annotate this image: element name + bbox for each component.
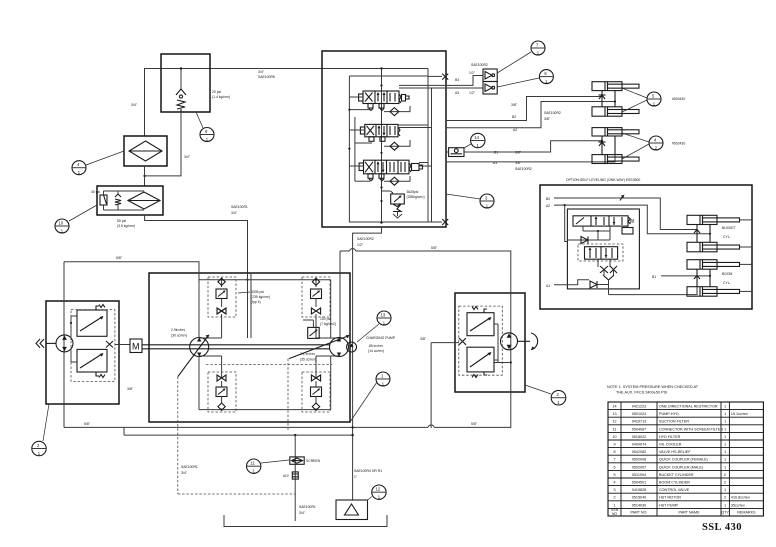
wire: detail to boom cyl <box>609 287 698 295</box>
svg-text:11: 11 <box>250 461 255 466</box>
wire: pump shaft double line <box>142 345 330 349</box>
balloon 2 (right hst motor) <box>525 385 566 405</box>
svg-text:SCREEN: SCREEN <box>306 459 321 463</box>
svg-text:1: 1 <box>724 503 726 507</box>
balloon 1 (hst pump) <box>350 372 390 422</box>
svg-text:OPTION:SELF LEVELING (ONE-WAY): OPTION:SELF LEVELING (ONE-WAY) ESS3500 <box>566 178 640 182</box>
svg-text:HST PUMP: HST PUMP <box>659 503 679 507</box>
label SAE100R1 3/4" <box>231 205 248 215</box>
right HST motor box (item 2) <box>455 293 525 392</box>
svg-text:1: 1 <box>724 465 726 469</box>
self leveling outer box <box>540 185 752 309</box>
svg-text:40 psi: 40 psi <box>91 190 100 194</box>
X mark bottom right of valve <box>428 219 448 225</box>
check valve below spool 1 <box>384 106 410 116</box>
drawing title SSL 430 <box>702 522 742 533</box>
svg-text:1: 1 <box>613 503 615 507</box>
wire: detail boom manifold <box>694 269 733 287</box>
svg-text:CYL.: CYL. <box>723 281 731 285</box>
check valve left in detail <box>567 237 610 244</box>
svg-text:PART NAME: PART NAME <box>678 511 700 515</box>
left HST motor box (item 2) <box>46 301 119 404</box>
wire: motor to M box <box>115 344 130 346</box>
detail bucket cylinder top <box>687 215 752 224</box>
svg-text:#502430: #502430 <box>672 142 685 146</box>
check valve 20 psi inside cooler <box>176 67 186 112</box>
svg-text:SAE100R4 OR R1: SAE100R4 OR R1 <box>354 469 382 473</box>
svg-text:CYL.: CYL. <box>723 235 731 239</box>
balloon 12 (reservoir) <box>368 485 387 500</box>
svg-text:12: 12 <box>612 420 616 424</box>
svg-text:15.1cc/rev: 15.1cc/rev <box>731 412 748 416</box>
wire: pilot line to right motor <box>420 337 459 428</box>
balloon 4 qty2 (boom cylinders) <box>622 133 685 159</box>
spool valve 1 (aux section) <box>359 91 409 111</box>
wire: A2 line in detail <box>546 204 710 234</box>
svg-text:0542082: 0542082 <box>632 450 646 454</box>
M engine box <box>130 339 142 353</box>
label 3335 psi <box>238 290 270 304</box>
wire: return line 3/4" to oil cooler <box>145 69 323 137</box>
svg-text:9: 9 <box>613 442 615 446</box>
labels B2 A2 <box>511 103 561 132</box>
svg-text:5: 5 <box>613 473 615 477</box>
svg-text:SAE100R2: SAE100R2 <box>357 237 374 241</box>
boom cylinder top (item 4) <box>592 128 639 136</box>
svg-text:0501024: 0501024 <box>632 412 646 416</box>
svg-text:0514030: 0514030 <box>632 503 646 507</box>
svg-text:SAE100R2: SAE100R2 <box>544 111 561 115</box>
one directional restrictor (item 14) <box>449 148 464 157</box>
svg-text:0511904: 0511904 <box>632 473 646 477</box>
svg-text:(14 cc/rev): (14 cc/rev) <box>368 349 384 353</box>
left motor shift valve lower <box>71 348 107 378</box>
wire: valve tank outlet SAE100R2 1/2" <box>353 227 382 500</box>
svg-text:50 psi: 50 psi <box>117 219 126 223</box>
svg-text:10: 10 <box>59 221 64 226</box>
wire: 5/8" line left to pump <box>64 256 199 273</box>
dashed pilot box left motor <box>71 310 115 382</box>
quick coupler male (item 6) <box>483 82 497 95</box>
throttle arrows pair <box>598 259 617 275</box>
wire: cooler to filter <box>144 166 146 186</box>
svg-text:HYD FILTER: HYD FILTER <box>659 435 681 439</box>
svg-text:A2: A2 <box>513 128 517 132</box>
wire: B1 line valve to boom cylinders <box>446 141 602 152</box>
svg-text:14: 14 <box>474 135 479 140</box>
wire: A3 line to quick coupler <box>399 87 483 89</box>
svg-text:2.1 in³/rev: 2.1 in³/rev <box>300 352 315 356</box>
svg-text:6: 6 <box>613 465 615 469</box>
balloon 2 (left hst motor) <box>32 404 49 456</box>
svg-text:1: 1 <box>724 404 726 408</box>
relief cluster bottom-left <box>199 356 236 412</box>
detail boom cylinder bottom <box>687 287 752 297</box>
svg-text:3: 3 <box>613 488 615 492</box>
svg-text:NO: NO <box>612 512 617 516</box>
wire: charge suction line inside box <box>248 273 252 338</box>
svg-text:5/8": 5/8" <box>471 422 478 426</box>
svg-text:1: 1 <box>724 488 726 492</box>
svg-text:3/4": 3/4" <box>231 211 238 215</box>
right motor shift valve upper <box>467 307 511 363</box>
svg-text:HST MOTOR: HST MOTOR <box>659 496 681 500</box>
balloon 10 (hyd filter) <box>55 205 97 234</box>
hst pump right variable <box>289 335 350 362</box>
bottom bracket <box>224 515 387 527</box>
svg-text:BOOM CYLINDER: BOOM CYLINDER <box>659 480 690 484</box>
reservoir tank (item 12) <box>336 500 368 520</box>
svg-text:1: 1 <box>724 427 726 431</box>
svg-text:1: 1 <box>724 450 726 454</box>
svg-text:CHARGING PUMP: CHARGING PUMP <box>366 336 396 340</box>
svg-text:3/4": 3/4" <box>184 155 191 159</box>
svg-text:QUICK COUPLER (FEMALE): QUICK COUPLER (FEMALE) <box>659 458 708 462</box>
balloon 7 (coupler female) <box>497 41 545 73</box>
wire: A1 line valve to boom cylinders <box>446 155 615 162</box>
svg-text:0504501: 0504501 <box>632 480 646 484</box>
svg-text:(235 kg/cm²): (235 kg/cm²) <box>251 295 270 299</box>
hyd filter box (item 10) with bypass <box>91 186 163 215</box>
svg-text:SSL 430: SSL 430 <box>702 522 742 533</box>
svg-text:3/8": 3/8" <box>515 161 522 165</box>
wire: HST bottom gallery <box>199 356 331 411</box>
svg-text:(1.4 kg/cm²): (1.4 kg/cm²) <box>212 95 230 99</box>
svg-text:0502057: 0502057 <box>632 465 646 469</box>
balloon 3 (control valve) <box>446 194 494 209</box>
wire: B1 line in detail <box>652 275 710 279</box>
svg-text:410.8cc/rev: 410.8cc/rev <box>731 496 750 500</box>
balloon 5 (bucket cylinders) <box>622 88 685 112</box>
svg-text:2: 2 <box>613 496 615 500</box>
wire: detail bucket manifold <box>694 225 736 243</box>
boom cylinder bottom (item 4) <box>592 155 639 164</box>
svg-text:0400074: 0400074 <box>632 442 646 446</box>
svg-text:(30 cc/rev): (30 cc/rev) <box>171 334 187 338</box>
svg-text:2: 2 <box>724 496 726 500</box>
svg-text:3625psi: 3625psi <box>407 190 419 194</box>
svg-text:THE AUX. FFCS 2400±50 PSI: THE AUX. FFCS 2400±50 PSI <box>616 391 667 395</box>
svg-text:PART NO.: PART NO. <box>630 511 647 515</box>
self leveling spool valve <box>573 216 635 234</box>
label 3/8" near M <box>127 387 134 391</box>
X mark top right of valve <box>428 74 448 80</box>
svg-text:A3: A3 <box>455 91 459 95</box>
svg-text:3/8": 3/8" <box>544 117 551 121</box>
svg-text:(255kg/cm²): (255kg/cm²) <box>407 195 425 199</box>
svg-text:3/4": 3/4" <box>299 511 306 515</box>
parts table <box>608 402 763 516</box>
wire: inlet line inside valve block <box>322 67 428 76</box>
label tank hose <box>354 469 382 479</box>
right motor symbol <box>501 333 538 350</box>
svg-text:CONNECTOR WITH SCREEN FILTER: CONNECTOR WITH SCREEN FILTER <box>659 427 723 431</box>
right motor shift valve lower <box>467 347 498 377</box>
svg-text:#10: #10 <box>283 474 289 478</box>
svg-text:3/8": 3/8" <box>511 103 518 107</box>
svg-text:5/8": 5/8" <box>84 422 91 426</box>
wire: boom cyl manifold verticals <box>599 136 616 155</box>
svg-text:SAE100R5: SAE100R5 <box>258 75 275 79</box>
svg-text:#503430: #503430 <box>672 97 685 101</box>
balloon 14 (restrictor) <box>464 133 485 148</box>
bucket cylinder top (item 5) <box>592 82 639 91</box>
svg-text:0518022: 0518022 <box>632 435 646 439</box>
left motor symbol <box>36 335 73 352</box>
svg-text:100 psi: 100 psi <box>320 317 331 321</box>
svg-text:1: 1 <box>724 442 726 446</box>
svg-text:13: 13 <box>381 313 386 318</box>
control valve block outer box (item 3) <box>322 51 446 227</box>
svg-text:4: 4 <box>613 480 615 484</box>
wire: B2 line in detail <box>546 196 697 230</box>
svg-text:11: 11 <box>613 427 617 431</box>
svg-text:1/2": 1/2" <box>357 243 364 247</box>
wire: A2 branch into inner box <box>565 205 568 241</box>
svg-text:1/2": 1/2" <box>469 71 476 75</box>
svg-text:1: 1 <box>724 458 726 462</box>
svg-text:10: 10 <box>612 435 616 439</box>
svg-text:3/4": 3/4" <box>181 471 188 475</box>
svg-text:W: W <box>630 219 635 225</box>
label 3/4" bypass <box>184 155 191 159</box>
wire: case drain dashed right <box>206 359 332 431</box>
relief cluster bottom-right <box>302 356 340 412</box>
svg-text:0421223: 0421223 <box>632 404 646 408</box>
spool valve 3 (bucket section with float) <box>359 160 422 181</box>
note text <box>607 385 699 395</box>
charge relief 100psi <box>303 317 336 338</box>
check valve below spool 2 <box>384 140 410 150</box>
svg-text:35cc/rev: 35cc/rev <box>731 503 745 507</box>
wire: section 3 feed stubs <box>349 163 431 182</box>
label 3/4" SAE100R5 <box>258 70 275 79</box>
svg-text:13: 13 <box>612 412 616 416</box>
svg-text:B1: B1 <box>652 275 656 279</box>
bucket cylinder bottom (item 5) <box>592 107 639 116</box>
svg-text:SAE100R1: SAE100R1 <box>231 205 248 209</box>
svg-text:(7 kg/cm2): (7 kg/cm2) <box>320 322 336 326</box>
svg-text:REMARKS: REMARKS <box>737 511 756 515</box>
svg-text:3/4": 3/4" <box>131 103 138 107</box>
wire: A1 line in detail <box>546 280 609 288</box>
svg-text:8: 8 <box>613 450 615 454</box>
svg-text:12: 12 <box>376 487 381 492</box>
svg-text:3/8": 3/8" <box>515 151 522 155</box>
wire: A2 line valve to bucket cylinders <box>446 102 615 128</box>
wire: B3 line to quick coupler <box>399 76 483 86</box>
wire: bottom return manifold <box>64 422 511 436</box>
svg-text:OIL COOLER: OIL COOLER <box>659 442 682 446</box>
svg-text:A2: A2 <box>546 204 550 208</box>
svg-text:SAE100R1: SAE100R1 <box>299 505 316 509</box>
labels B1 A1 <box>493 151 532 172</box>
connector with screen filter (item 11) <box>283 435 321 521</box>
svg-text:VALVE HS-RELIEF: VALVE HS-RELIEF <box>659 450 691 454</box>
svg-text:3335 psi: 3335 psi <box>251 290 264 294</box>
main relief valve 3625 psi <box>382 190 425 218</box>
label B3 A3 ports <box>455 63 488 95</box>
self leveling inner valve box <box>567 209 639 289</box>
balloon 6 (coupler male) <box>497 70 553 87</box>
svg-text:20 psi: 20 psi <box>212 90 221 94</box>
wire: vertical through right motor <box>510 293 512 428</box>
wire: case drain dashed left <box>178 377 295 494</box>
label 20 psi <box>212 90 230 99</box>
svg-text:BOOM: BOOM <box>722 272 733 276</box>
svg-text:SAE100R2: SAE100R2 <box>471 63 488 67</box>
svg-text:B1: B1 <box>494 151 498 155</box>
wire: bucket cyl manifold verticals <box>599 91 617 107</box>
svg-text:NOTE 1. SYSTEM PRESSURE WHEN C: NOTE 1. SYSTEM PRESSURE WHEN CHECKED AT <box>607 385 699 389</box>
svg-text:1: 1 <box>724 420 726 424</box>
spool valve 2 (boom section) <box>360 124 400 141</box>
inner dashed 2-position valve <box>578 244 623 261</box>
charging pump circle <box>347 336 396 353</box>
svg-text:(3.5 kg/cm²): (3.5 kg/cm²) <box>117 224 135 228</box>
svg-text:1: 1 <box>724 435 726 439</box>
balloon 9 (oil cooler) <box>196 112 214 142</box>
svg-text:14: 14 <box>612 404 616 408</box>
svg-text:0502008: 0502008 <box>632 458 646 462</box>
HST pump assembly box (item 1) <box>149 273 350 422</box>
svg-text:1/2": 1/2" <box>469 91 476 95</box>
wire: vertical through left motor <box>63 262 65 428</box>
svg-text:B2: B2 <box>512 115 516 119</box>
svg-text:A1: A1 <box>493 161 497 165</box>
wire: inner gallery frame <box>348 69 431 224</box>
svg-text:3/4": 3/4" <box>258 70 265 74</box>
svg-text:BUCKET CYLINDER: BUCKET CYLINDER <box>659 473 694 477</box>
label 50 psi <box>117 219 135 228</box>
suction filter box <box>124 136 167 166</box>
svg-text:5/8": 5/8" <box>116 256 123 260</box>
svg-text:CONTROL VALVE: CONTROL VALVE <box>659 488 690 492</box>
check valve below spool 3 <box>384 176 410 185</box>
svg-text:3/8": 3/8" <box>127 387 134 391</box>
svg-text:M: M <box>132 342 140 352</box>
detail bucket cylinder bottom <box>687 242 752 252</box>
relief cluster top-left <box>199 277 236 338</box>
svg-text:1: 1 <box>724 412 726 416</box>
svg-text:0419828: 0419828 <box>632 488 646 492</box>
hst pump left variable (item 1) <box>171 328 210 377</box>
svg-text:3/8": 3/8" <box>420 337 427 341</box>
svg-text:(typ 4): (typ 4) <box>251 300 261 304</box>
wire: cooler bypass drain gray <box>143 112 181 177</box>
wire: spool to lower group <box>583 226 610 240</box>
svg-text:PUMP-HYD: PUMP-HYD <box>659 412 679 416</box>
balloon 11 (screen connector) <box>247 459 290 474</box>
port funnel symbol <box>603 275 614 295</box>
balloon 13 (charging pump) <box>357 311 391 342</box>
balloon 4 (suction filter callout) <box>72 151 124 175</box>
wire: HST top gallery <box>199 273 340 338</box>
svg-text:QUICK COUPLER (MALE): QUICK COUPLER (MALE) <box>659 465 703 469</box>
svg-text:QTY: QTY <box>721 511 729 515</box>
svg-text:A1: A1 <box>546 284 550 288</box>
svg-text:7: 7 <box>613 458 615 462</box>
svg-text:2.9in³/rev: 2.9in³/rev <box>171 328 185 332</box>
dashed pilot box right motor <box>459 306 503 375</box>
left motor shift valve upper <box>70 305 107 341</box>
svg-text:B3: B3 <box>455 78 459 82</box>
detail boom cylinder top <box>687 260 752 270</box>
quick coupler female (item 7) <box>483 69 497 82</box>
wire: B2 line valve to bucket cylinders <box>446 97 602 121</box>
svg-text:2: 2 <box>724 480 726 484</box>
svg-text:2: 2 <box>724 473 726 477</box>
svg-text:0504087: 0504087 <box>632 427 646 431</box>
svg-text:SAE100R1: SAE100R1 <box>181 465 198 469</box>
svg-text:B2: B2 <box>546 197 550 201</box>
svg-text:(35 cc/rev): (35 cc/rev) <box>300 358 316 362</box>
svg-text:BUCKET: BUCKET <box>722 226 736 230</box>
self leveling option title <box>566 178 640 182</box>
wire: section 2 feed stubs <box>349 125 431 143</box>
wire: filter outlet SAE100R1 3/4" to charge pump <box>145 215 248 273</box>
wire: 5/8" line valve area to right motor <box>340 246 511 293</box>
oil cooler box (item 9) <box>161 54 210 112</box>
svg-text:SUCTION FILTER: SUCTION FILTER <box>659 420 689 424</box>
label 3/4" left riser <box>131 103 138 107</box>
svg-text:0515040: 0515040 <box>632 496 646 500</box>
wire: section 1 feed stubs <box>349 97 371 110</box>
svg-text:SAE100R2: SAE100R2 <box>515 167 532 171</box>
svg-text:5/8": 5/8" <box>431 246 438 250</box>
relief cluster top-right <box>302 277 340 338</box>
svg-text:.85 in³/rev: .85 in³/rev <box>368 344 383 348</box>
svg-text:ONE DIRECTIONAL RESTRICTOR: ONE DIRECTIONAL RESTRICTOR <box>659 404 718 408</box>
svg-text:0416713: 0416713 <box>632 420 646 424</box>
